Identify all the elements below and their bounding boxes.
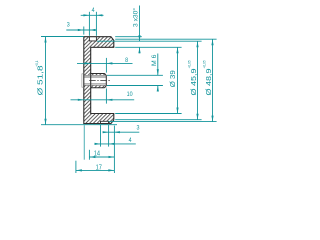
svg-text:3: 3 (137, 125, 140, 132)
node: hatched top flange band (84, 37, 114, 48)
wire: ext dia 39 top (115, 46, 181, 48)
svg-text:+0,1: +0,1 (35, 60, 39, 67)
node: axis centre line (dash-dot) (89, 79, 111, 81)
node: hatched boss ring upper (91, 74, 107, 76)
node: hatched left wall upper (84, 47, 91, 75)
node: hatched bottom flange band (84, 114, 114, 124)
wire: ext dia 45.9 top (97, 40, 202, 42)
wire: dim 8 extension (105, 58, 107, 73)
node: dia 48.9 dimension line (212, 39, 214, 121)
node: part outer outline with chamfers (84, 37, 114, 124)
node: dia 51.8 dimension line (45, 37, 47, 125)
wire: M6 extension lines (107, 74, 163, 76)
svg-text:3: 3 (67, 21, 70, 28)
node: dim 8 dimension line (77, 62, 133, 64)
node: dim 10 dimension line (71, 99, 135, 101)
node: dia 51.8 extension bottom (41, 124, 117, 126)
wire: ext chamfer top (115, 36, 142, 38)
svg-text:+0,05: +0,05 (188, 60, 192, 68)
svg-text:3 x30°: 3 x30° (133, 7, 140, 27)
node: chamfer dim line (139, 6, 141, 42)
svg-text:+0,05: +0,05 (203, 60, 207, 68)
node: dia 51.8 extension top (41, 36, 84, 38)
node: dim 17 dimension line (76, 169, 114, 171)
svg-text:Ø 39: Ø 39 (170, 70, 177, 87)
node: bottom rim groove (101, 121, 109, 123)
node: M6 dimension line (157, 54, 159, 76)
wire: dim 10 extension (105, 88, 107, 103)
node: hatched left wall lower (84, 86, 91, 114)
node: dim 4 dimension line (81, 14, 104, 16)
node: top rim groove (89, 37, 96, 41)
node: M6 thread core lines (84, 76, 106, 78)
svg-text:4: 4 (129, 137, 132, 144)
svg-text:Ø 45,9: Ø 45,9 (191, 68, 198, 95)
svg-text:4: 4 (92, 7, 95, 14)
wire: dim 14 extensions (83, 125, 85, 160)
node: dim 4 extension lines (88, 12, 90, 36)
wire: background (0, 0, 240, 180)
node: dim 4 bottom line (95, 143, 136, 145)
svg-text:Ø 51,8: Ø 51,8 (38, 65, 45, 95)
svg-text:14: 14 (94, 149, 100, 158)
svg-text:Ø 48,9: Ø 48,9 (206, 68, 213, 95)
svg-text:10: 10 (127, 91, 133, 98)
node: dim 3 bottom line (104, 131, 139, 133)
node: central threaded boss outline (91, 74, 107, 88)
wire: ext lines bottom grooves (100, 125, 102, 147)
node: M6 thread major lines (84, 74, 106, 76)
node: dim 3 dimension line (66, 29, 96, 31)
node: dia 39 dimension line (177, 47, 179, 113)
node: dia 45.9 dimension line (197, 41, 199, 120)
node: hatched boss ring lower (91, 86, 107, 88)
svg-text:8: 8 (125, 57, 128, 64)
wire: dim 17 extension (75, 161, 77, 173)
wire: ext dia 45.9 bottom (115, 119, 201, 121)
wire: ext dia 39 bottom (115, 113, 181, 115)
svg-text:M 6: M 6 (151, 54, 158, 66)
node: back-face thread relief outline (82, 74, 84, 87)
wire: ext dia 48.9 bottom (109, 121, 217, 123)
svg-text:17: 17 (96, 163, 102, 172)
node: dim 3 extension line (83, 27, 85, 35)
wire: ext dia 48.9 top (115, 38, 216, 40)
node: dim 14 dimension line (89, 156, 114, 158)
